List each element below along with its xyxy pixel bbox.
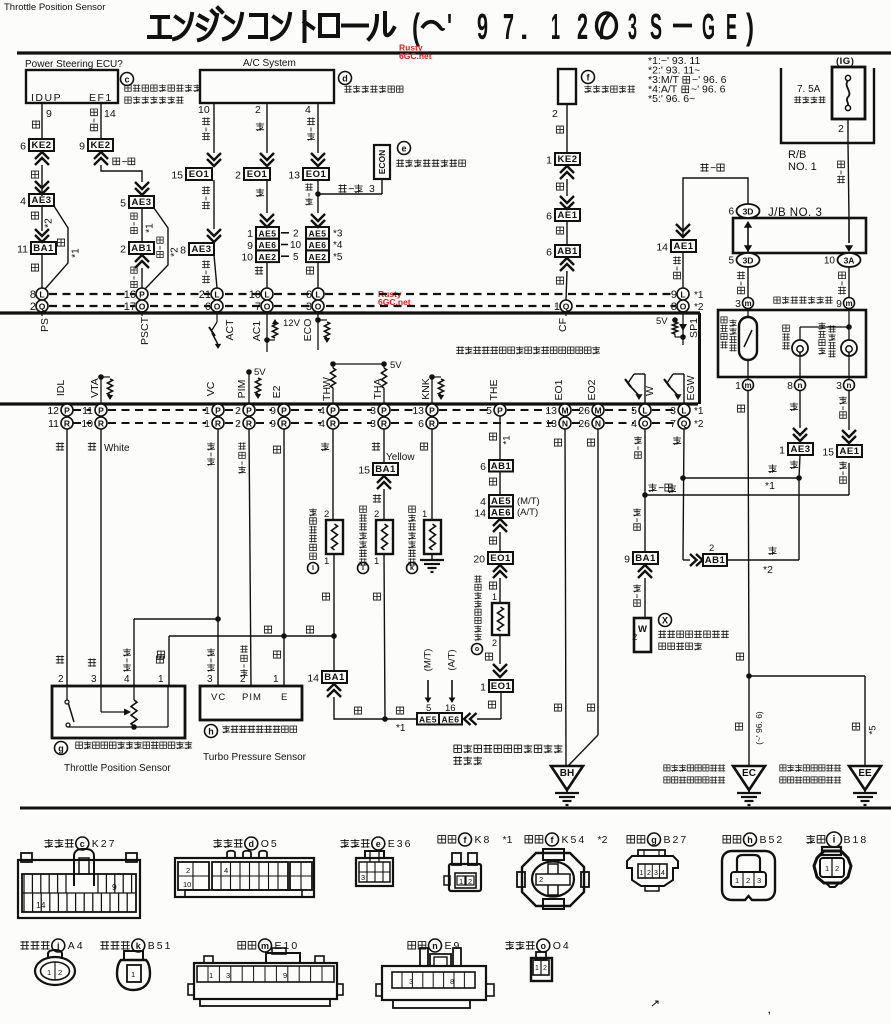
fuse symbol xyxy=(845,75,850,80)
wire speed sensor down xyxy=(748,391,749,676)
pot resistor xyxy=(133,686,135,700)
color label red-blue pot xyxy=(123,648,131,656)
svg-text:4: 4 xyxy=(20,196,26,208)
title tilde xyxy=(422,22,444,29)
chevron xyxy=(377,476,391,489)
svg-text:9: 9 xyxy=(46,108,52,120)
svg-text:2: 2 xyxy=(468,877,472,886)
svg-text:~' 96. 6: ~' 96. 6 xyxy=(691,84,726,96)
svg-text:PIM: PIM xyxy=(242,692,262,703)
svg-text:(M/T): (M/T) xyxy=(517,496,540,507)
color label orange xyxy=(255,266,263,274)
signal CF xyxy=(565,311,567,316)
wire THA down + intake temp sensor xyxy=(383,429,385,462)
color label brown xyxy=(737,405,744,412)
svg-text:d: d xyxy=(249,839,255,849)
label brown xyxy=(488,701,495,708)
connector AE3 pin 8 xyxy=(189,243,214,255)
connector BA1 pin 11 xyxy=(31,242,56,254)
title Engine Control (katakana drawn as strokes) xyxy=(149,8,394,41)
svg-text:W: W xyxy=(644,386,656,396)
svg-text:VC: VC xyxy=(205,381,217,396)
svg-text:AE1: AE1 xyxy=(840,446,860,457)
node 7 O xyxy=(261,300,273,312)
color label blue-yellow horizontal xyxy=(113,158,120,165)
svg-text:1: 1 xyxy=(459,877,463,886)
svg-text:Yellow: Yellow xyxy=(386,452,415,463)
chevron xyxy=(135,182,149,195)
chevron xyxy=(493,519,507,532)
wire check lamp down xyxy=(848,391,850,430)
color label blue-green xyxy=(838,161,845,168)
connector drawing n E9 xyxy=(382,966,486,1000)
chevron into AE6 xyxy=(464,713,477,725)
svg-text:Q: Q xyxy=(563,302,570,312)
node 8 n xyxy=(795,380,806,391)
top rule xyxy=(17,51,891,54)
svg-text:1: 1 xyxy=(374,556,379,567)
svg-text:EO2: EO2 xyxy=(586,379,598,400)
svg-text:KE2: KE2 xyxy=(91,140,111,151)
wire THW down + water temp sensor xyxy=(332,429,334,520)
color label green-white xyxy=(839,461,847,469)
color label black xyxy=(556,277,563,284)
color label black xyxy=(31,264,38,271)
throttle E wire xyxy=(168,636,170,686)
svg-text:O: O xyxy=(642,419,649,429)
svg-text:14: 14 xyxy=(474,508,486,520)
connector AE6 pin 14 (A/T) xyxy=(489,507,513,519)
svg-text:2: 2 xyxy=(552,108,558,120)
svg-text:*4: *4 xyxy=(333,240,343,251)
connector BA1 pin 15 xyxy=(373,463,398,475)
connector drawing i B18 xyxy=(814,851,851,883)
svg-text:4: 4 xyxy=(305,104,311,116)
svg-text:*1: *1 xyxy=(694,406,704,417)
arrow up xyxy=(744,221,752,228)
svg-text:14: 14 xyxy=(104,108,116,120)
svg-text:9: 9 xyxy=(624,554,630,566)
svg-text:6: 6 xyxy=(546,247,552,259)
svg-text:2: 2 xyxy=(746,876,750,885)
svg-text:L: L xyxy=(642,406,647,416)
bypass wire *2 xyxy=(145,208,168,289)
junction block J/B NO.3 box xyxy=(733,218,866,253)
svg-text:E: E xyxy=(726,6,737,47)
idle switch symbol xyxy=(66,686,68,700)
svg-text:*5: *5 xyxy=(868,726,879,735)
svg-text:ACT: ACT xyxy=(224,319,236,341)
svg-text:11: 11 xyxy=(17,244,28,256)
color label pink-green xyxy=(202,117,210,125)
label water temp sensor (jp) xyxy=(309,508,317,516)
label speed sensor (jp) xyxy=(721,317,727,323)
svg-text:9: 9 xyxy=(247,240,253,252)
svg-text:26: 26 xyxy=(578,405,590,417)
connector KE2 pin 6 xyxy=(29,139,54,151)
svg-text:2: 2 xyxy=(235,170,241,182)
wire xyxy=(214,255,217,288)
svg-text:2: 2 xyxy=(186,866,190,875)
svg-text:R: R xyxy=(281,419,287,429)
connector drawing d O5 xyxy=(175,858,314,897)
connector drawing e E36 label xyxy=(340,839,349,848)
wire THE down xyxy=(499,416,501,460)
svg-text:1: 1 xyxy=(640,870,644,877)
svg-text:n: n xyxy=(432,941,438,951)
connector drawing j A4 xyxy=(35,957,75,985)
color label brown xyxy=(322,593,329,600)
wire xyxy=(799,455,800,478)
svg-text:(IG): (IG) xyxy=(836,56,854,67)
svg-text:10: 10 xyxy=(824,256,836,267)
svg-text:8: 8 xyxy=(787,380,793,392)
connector drawing h B52 label xyxy=(723,836,731,843)
node 9 m xyxy=(844,298,855,309)
connector EO1 pin 1 xyxy=(489,680,513,692)
chevron xyxy=(260,214,274,227)
chevron xyxy=(207,153,221,166)
connector drawing g B27 xyxy=(627,856,678,886)
svg-text:*1: *1 xyxy=(694,290,704,301)
color label brown xyxy=(736,653,743,660)
combination meter box xyxy=(718,310,866,377)
svg-text:L: L xyxy=(315,290,320,300)
svg-text:m: m xyxy=(261,941,269,951)
svg-text:E2: E2 xyxy=(271,385,283,398)
svg-text:11: 11 xyxy=(48,418,59,430)
svg-text:5: 5 xyxy=(293,252,299,263)
wire xyxy=(499,578,501,603)
connector EO1 pin 2 xyxy=(244,168,270,180)
color label white-purple xyxy=(673,256,681,264)
bypass wire *1 xyxy=(45,206,68,289)
chevron xyxy=(560,196,574,209)
connector stack AE5 *3 xyxy=(306,227,329,239)
wire xyxy=(383,489,385,520)
connector BA1 pin 9 xyxy=(633,552,658,564)
wire xyxy=(566,104,568,153)
svg-text:7. 5A: 7. 5A xyxy=(797,84,821,95)
diagnosis connector W box xyxy=(634,618,651,652)
svg-text:2: 2 xyxy=(492,638,497,648)
ECU top edge xyxy=(0,311,700,314)
svg-text:k: k xyxy=(410,565,414,572)
svg-text:(~' 96. 6): (~' 96. 6) xyxy=(754,711,764,745)
label circle c xyxy=(121,73,134,86)
connector drawing g B27 label xyxy=(627,836,635,843)
connector KE2 pin 9 xyxy=(88,139,113,151)
label circle I xyxy=(358,563,369,574)
svg-text:AE6: AE6 xyxy=(441,714,459,724)
label circle g xyxy=(55,742,68,755)
color label red xyxy=(256,123,264,131)
color label black xyxy=(489,537,496,544)
svg-text:White: White xyxy=(104,443,130,454)
svg-text:13: 13 xyxy=(288,170,300,182)
svg-text:AE6: AE6 xyxy=(258,240,276,250)
color label black xyxy=(31,171,38,178)
node 3 m xyxy=(743,298,754,309)
chevron into AB1 xyxy=(690,554,703,566)
ground triangle EE xyxy=(849,766,881,790)
svg-text:14: 14 xyxy=(36,900,46,910)
svg-text:G: G xyxy=(702,6,715,47)
wire stack down xyxy=(317,262,319,288)
svg-text:3: 3 xyxy=(226,971,230,980)
wire EGW down xyxy=(683,429,684,560)
connector drawing m E10 label xyxy=(238,942,246,949)
color label blue-green xyxy=(839,272,846,279)
wire exh lamp down xyxy=(799,391,801,428)
svg-text:PIM: PIM xyxy=(236,380,248,399)
svg-text:m: m xyxy=(744,299,751,308)
svg-text:P: P xyxy=(281,406,287,416)
svg-text:*1: *1 xyxy=(502,436,513,445)
color label brown 2 xyxy=(273,651,280,658)
wire from EO1 col xyxy=(477,718,501,720)
chevron xyxy=(94,152,108,165)
label brown 719 xyxy=(396,707,403,714)
svg-text:AE5: AE5 xyxy=(419,714,437,724)
ECO pull stub xyxy=(315,317,321,323)
sensor common rail xyxy=(68,726,168,728)
chevron xyxy=(311,214,325,227)
svg-text:AE3: AE3 xyxy=(791,444,811,455)
svg-text:BA1: BA1 xyxy=(375,464,396,475)
svg-text:2: 2 xyxy=(324,509,329,520)
signal PSCT xyxy=(141,311,143,316)
wire xyxy=(499,635,501,664)
wire W down xyxy=(644,429,646,552)
color label black xyxy=(556,126,563,133)
color label pink xyxy=(56,656,64,664)
svg-text:CF: CF xyxy=(557,318,569,332)
node 3 n xyxy=(844,380,855,391)
title dash xyxy=(673,24,692,28)
svg-text:1: 1 xyxy=(735,876,739,885)
THW pullup resistor xyxy=(332,364,334,368)
wire 3A to combo meter xyxy=(848,267,850,297)
VTA pull stub xyxy=(100,377,102,404)
svg-text:EO1: EO1 xyxy=(553,379,565,400)
color label brown xyxy=(156,656,163,663)
color label blue-yellow xyxy=(131,267,137,273)
color label black *1 xyxy=(489,433,496,440)
svg-text:20: 20 xyxy=(473,554,485,566)
svg-text:n: n xyxy=(798,381,803,390)
svg-text:14: 14 xyxy=(307,673,319,685)
connector AE3 pin 5 xyxy=(129,196,154,208)
wire xyxy=(41,165,43,196)
svg-text:AE5: AE5 xyxy=(308,228,326,238)
wire KNK down + knock sensor xyxy=(431,429,433,520)
svg-text:E10: E10 xyxy=(275,940,300,952)
node 3 O xyxy=(312,300,324,312)
svg-text:AE2: AE2 xyxy=(308,252,326,262)
AB1 line to AE3 col *2 xyxy=(727,559,799,561)
svg-text:3: 3 xyxy=(409,977,413,986)
wire VC down xyxy=(217,429,219,686)
label combination meter (jp) xyxy=(774,297,780,303)
svg-text:*2: *2 xyxy=(598,834,608,846)
label circle X xyxy=(659,614,672,627)
svg-text:Throttle Position Sensor: Throttle Position Sensor xyxy=(4,2,105,13)
wire IDL down xyxy=(66,429,68,686)
transistor EGW output xyxy=(683,374,685,403)
node speed gnd split xyxy=(746,673,752,679)
ground triangle EC xyxy=(733,766,765,790)
transistor ACT xyxy=(212,322,217,330)
svg-text:3: 3 xyxy=(369,183,375,195)
signal ECO xyxy=(317,311,319,350)
svg-text:M: M xyxy=(594,406,601,416)
svg-text:': ' xyxy=(447,6,452,47)
connector EO1 pin 13 xyxy=(303,168,329,180)
svg-text:M: M xyxy=(561,406,568,416)
svg-text:2: 2 xyxy=(120,244,126,256)
svg-text:AB1: AB1 xyxy=(491,461,512,472)
connector stack AE6 pin 9 xyxy=(256,239,279,251)
svg-text:ECO: ECO xyxy=(302,319,314,342)
node 16 P xyxy=(136,288,148,300)
wire xyxy=(499,532,501,552)
color label orange xyxy=(56,442,64,450)
svg-text:3: 3 xyxy=(836,380,842,392)
label intake temp sensor (jp) xyxy=(360,506,367,512)
connector oval 3A pin 10 xyxy=(838,253,861,267)
lamp check engine xyxy=(841,340,857,356)
svg-text:PS: PS xyxy=(39,318,51,332)
ECU right edge xyxy=(698,313,701,404)
svg-text:Power Steering ECU?: Power Steering ECU? xyxy=(25,59,123,70)
svg-text:O: O xyxy=(264,302,271,312)
svg-text:Q: Q xyxy=(39,302,46,312)
svg-text:4: 4 xyxy=(224,866,228,875)
ECU pin row R/N/O/Q xyxy=(61,417,73,429)
color label red xyxy=(790,402,798,410)
svg-text:15: 15 xyxy=(358,465,370,477)
svg-text:O: O xyxy=(214,302,221,312)
svg-text:*3: *3 xyxy=(333,229,343,240)
chevron xyxy=(493,664,507,677)
dashed bus row QO xyxy=(49,305,135,307)
svg-text:K54: K54 xyxy=(562,834,587,846)
color label red xyxy=(790,460,798,468)
svg-text:EO1: EO1 xyxy=(189,169,210,180)
chevron xyxy=(327,684,341,697)
svg-text:5V: 5V xyxy=(254,367,266,378)
svg-text:h: h xyxy=(747,835,753,845)
connector drawing i B18 label xyxy=(806,835,815,844)
svg-text:B52: B52 xyxy=(760,834,785,846)
color label green-white xyxy=(839,396,847,404)
svg-text:*5: *5 xyxy=(333,252,343,263)
svg-text:R: R xyxy=(429,419,435,429)
wire 3D to combo meter xyxy=(747,267,749,297)
connector AB1 pin 6 xyxy=(555,245,580,257)
svg-text:9: 9 xyxy=(283,971,287,980)
signal AC1 xyxy=(266,311,268,352)
label pink-blue horizontal xyxy=(338,184,346,192)
label exhaust temp (jp) xyxy=(783,325,790,331)
VC branch to throttle pot xyxy=(215,616,221,622)
wire xyxy=(317,180,319,213)
color label red-blue vac xyxy=(207,648,215,656)
svg-text:2: 2 xyxy=(255,104,261,116)
connector KE2 pin 1 xyxy=(555,153,580,165)
color label black xyxy=(420,443,427,450)
color label green-white 3 xyxy=(633,584,641,592)
svg-text:5V: 5V xyxy=(390,360,402,371)
label brown xyxy=(354,707,361,714)
node 10 L xyxy=(261,288,273,300)
svg-text:(A/T): (A/T) xyxy=(447,649,458,670)
knock sensor ground xyxy=(431,554,433,560)
svg-text:3: 3 xyxy=(654,870,658,877)
svg-text:EO1: EO1 xyxy=(490,553,511,564)
connector AB1 xyxy=(703,554,727,566)
node 17 O xyxy=(136,300,148,312)
connector drawing k B51 xyxy=(124,951,143,960)
svg-text:2: 2 xyxy=(709,543,714,554)
connector drawing h B52 xyxy=(722,851,775,900)
chevron xyxy=(260,153,274,166)
wire purple-white feed xyxy=(683,178,748,238)
svg-text:PSCT: PSCT xyxy=(139,316,151,345)
intake temp sensor box xyxy=(376,520,393,554)
svg-text:EO1: EO1 xyxy=(306,169,327,180)
svg-text:B27: B27 xyxy=(664,834,689,846)
svg-text:VTA: VTA xyxy=(89,378,101,398)
ECU label (jp) xyxy=(456,346,464,354)
svg-text:KE2: KE2 xyxy=(32,140,52,151)
svg-text:EGW: EGW xyxy=(685,375,697,400)
connector drawing d O5 label xyxy=(213,839,222,848)
node junction econ xyxy=(315,191,321,197)
svg-text:P: P xyxy=(429,406,435,416)
svg-text:EO1: EO1 xyxy=(491,681,512,692)
svg-text:AE1: AE1 xyxy=(674,241,694,252)
svg-text:P: P xyxy=(139,290,145,300)
svg-text:AE1: AE1 xyxy=(558,210,578,221)
svg-text:EC: EC xyxy=(742,768,756,779)
connector AE1 pin 6 xyxy=(555,209,580,221)
lamp exhaust temp xyxy=(792,340,808,356)
svg-text:10: 10 xyxy=(241,252,253,264)
svg-text:e: e xyxy=(401,144,406,154)
signal SP1 xyxy=(682,311,684,345)
connector stack AE5 pin 1 xyxy=(256,227,279,239)
signal ACT xyxy=(216,311,218,322)
connector oval 3D pin 5 xyxy=(737,253,760,267)
svg-text:*2: *2 xyxy=(694,302,704,313)
pin row dashes 1 xyxy=(73,409,91,411)
svg-text:6: 6 xyxy=(418,418,424,430)
connector AE3 pin 4 xyxy=(29,194,54,206)
svg-text:4: 4 xyxy=(661,870,665,877)
svg-text:3: 3 xyxy=(757,876,761,885)
svg-text:n: n xyxy=(847,381,852,390)
svg-text:6: 6 xyxy=(728,207,734,218)
svg-text:AE3: AE3 xyxy=(32,195,52,206)
svg-text:10: 10 xyxy=(198,104,210,116)
wire AB1 down xyxy=(141,268,143,288)
color label black xyxy=(489,478,496,485)
svg-text:9: 9 xyxy=(112,882,117,892)
svg-text:9: 9 xyxy=(477,6,488,47)
svg-text:*2: *2 xyxy=(694,419,704,430)
